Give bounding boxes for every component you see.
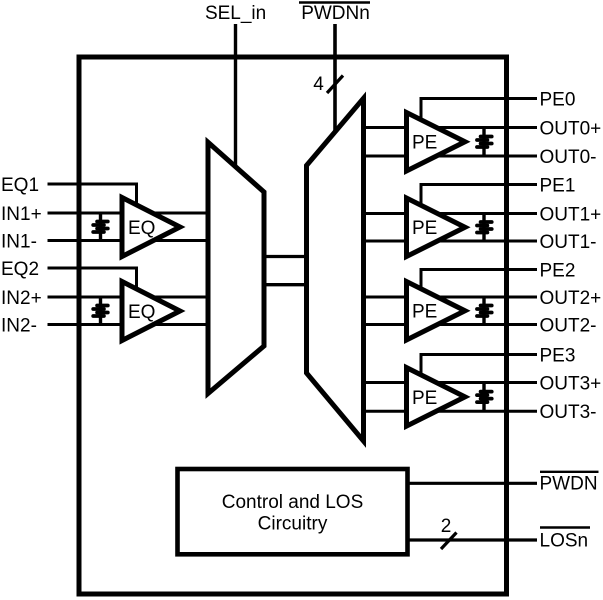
svg-text:LOSn: LOSn — [540, 530, 589, 551]
bus width 2 label — [441, 516, 452, 537]
node PE3 label — [540, 345, 576, 366]
svg-text:IN2-: IN2- — [1, 315, 37, 336]
svg-text:OUT3+: OUT3+ — [540, 373, 602, 394]
bus width 2 slash — [441, 533, 457, 550]
svg-text:PE0: PE0 — [540, 89, 576, 110]
node IN1- label — [1, 231, 37, 252]
wire PWDN — [408, 482, 538, 485]
wire OUT2- — [364, 323, 538, 326]
node PE2 label — [540, 260, 576, 281]
amplifier PE ch0 — [407, 113, 466, 172]
node IN1+ label — [1, 204, 42, 225]
svg-text:EQ1: EQ1 — [1, 175, 39, 196]
bus width 4 label — [313, 74, 324, 95]
wire PWDNn — [333, 24, 337, 134]
amplifier PE ch3 — [407, 368, 466, 427]
wire OUT3+ — [364, 381, 538, 384]
wire EQ1 — [48, 184, 137, 207]
termination resistor output ch0 — [477, 128, 492, 157]
node SEL_in label — [205, 3, 266, 24]
wire LOSn — [408, 538, 538, 541]
amplifier PE ch2 — [407, 282, 466, 341]
node OUT1- label — [540, 232, 597, 253]
node EQ1 label — [1, 175, 39, 196]
wire IN1- — [48, 239, 210, 242]
node OUT3+ label — [540, 373, 602, 394]
svg-text:IN1-: IN1- — [1, 231, 37, 252]
svg-text:4: 4 — [313, 74, 324, 95]
wire OUT0+ — [364, 126, 538, 129]
node OUT0+ label — [540, 118, 602, 139]
node EQ2 label — [1, 259, 39, 280]
amplifier EQ ch2 — [122, 282, 180, 341]
svg-text:OUT1-: OUT1- — [540, 232, 597, 253]
svg-text:PE2: PE2 — [540, 260, 576, 281]
svg-text:PE3: PE3 — [540, 345, 576, 366]
wire EQ2 — [48, 268, 137, 291]
chip outline — [79, 57, 507, 594]
svg-text:OUT0-: OUT0- — [540, 147, 597, 168]
mux input stage — [208, 142, 264, 393]
amplifier PE ch1 — [407, 198, 466, 257]
svg-text:IN2+: IN2+ — [1, 288, 42, 309]
mux output stage — [307, 98, 364, 441]
svg-text:OUT2+: OUT2+ — [540, 288, 602, 309]
node OUT3- label — [540, 402, 597, 423]
svg-text:SEL_in: SEL_in — [205, 3, 266, 24]
termination resistor input ch2 — [93, 297, 108, 325]
svg-text:PE: PE — [412, 218, 437, 239]
wire PE3 — [421, 355, 537, 379]
bus width 4 slash — [327, 76, 343, 94]
svg-text:Circuitry: Circuitry — [258, 514, 328, 535]
svg-text:OUT0+: OUT0+ — [540, 118, 602, 139]
svg-text:PE1: PE1 — [540, 175, 576, 196]
svg-text:PE: PE — [412, 302, 437, 323]
svg-text:EQ: EQ — [128, 302, 155, 323]
node OUT0- label — [540, 147, 597, 168]
wire PE2 — [421, 270, 537, 294]
wire OUT1- — [364, 240, 538, 243]
svg-text:IN1+: IN1+ — [1, 204, 42, 225]
wire SEL_in — [234, 24, 237, 166]
termination resistor output ch3 — [477, 383, 492, 412]
node OUT2- label — [540, 315, 597, 336]
svg-text:PE: PE — [412, 388, 437, 409]
amplifier EQ ch1 — [122, 198, 180, 257]
svg-text:OUT1+: OUT1+ — [540, 204, 602, 225]
wire OUT3- — [364, 410, 538, 413]
svg-text:PWDNn: PWDNn — [301, 3, 370, 24]
svg-text:2: 2 — [441, 516, 452, 537]
termination resistor output ch2 — [477, 297, 492, 325]
node PWDN label — [540, 472, 599, 495]
wire IN2- — [48, 323, 210, 326]
node IN2- label — [1, 315, 37, 336]
node LOSn label — [540, 528, 591, 552]
svg-text:PWDN: PWDN — [540, 474, 598, 495]
termination resistor output ch1 — [477, 214, 492, 242]
bus between mux stages — [264, 257, 307, 285]
wire PE0 — [421, 99, 537, 123]
svg-text:EQ2: EQ2 — [1, 259, 39, 280]
wire IN2+ — [48, 296, 210, 299]
wire OUT0- — [364, 155, 538, 158]
block U1 Control and LOS Circuitry — [178, 469, 408, 554]
svg-text:EQ: EQ — [128, 218, 155, 239]
wire IN1+ — [48, 212, 210, 215]
wire OUT2+ — [364, 296, 538, 299]
wire OUT1+ — [364, 212, 538, 215]
node PE1 label — [540, 175, 576, 196]
svg-text:OUT2-: OUT2- — [540, 315, 597, 336]
node OUT2+ label — [540, 288, 602, 309]
wire PE1 — [421, 185, 537, 209]
node PWDNn label — [299, 3, 370, 25]
node PE0 label — [540, 89, 576, 110]
svg-text:Control and LOS: Control and LOS — [222, 492, 364, 513]
node OUT1+ label — [540, 204, 602, 225]
svg-text:PE: PE — [412, 133, 437, 154]
svg-text:OUT3-: OUT3- — [540, 402, 597, 423]
node IN2+ label — [1, 288, 42, 309]
termination resistor input ch1 — [93, 213, 108, 241]
